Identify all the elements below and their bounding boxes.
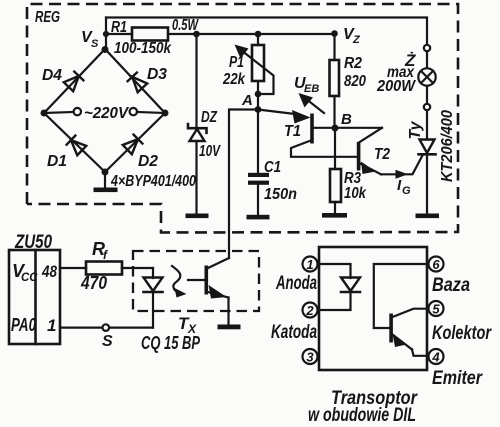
wire Rf to LED (122, 267, 153, 269)
AC terminal right (130, 108, 137, 115)
wire T1 base to B and onward (314, 127, 383, 129)
wire A left to opto collector (229, 110, 258, 259)
svg-text:CC: CC (21, 272, 38, 284)
lamp terminal top (424, 45, 430, 51)
ground C1 (247, 215, 270, 220)
svg-text:KT206/400: KT206/400 (439, 110, 456, 182)
svg-text:4×BYP401/400: 4×BYP401/400 (110, 173, 196, 190)
svg-text:R2: R2 (344, 55, 362, 72)
wire lamp to thyristor (426, 110, 428, 139)
REG dashed frame (27, 4, 458, 233)
pin 1 circle (303, 257, 318, 272)
lamp terminal bottom (424, 104, 430, 110)
svg-text:100-150k: 100-150k (114, 40, 172, 57)
lamp Z bulb (418, 68, 435, 85)
switch S terminal (103, 324, 110, 331)
DIL transistor bar (389, 314, 393, 343)
ground bridge (94, 188, 118, 193)
svg-text:ZU50: ZU50 (14, 232, 52, 253)
svg-text:22k: 22k (222, 71, 246, 88)
AC terminal left (74, 108, 81, 115)
svg-text:~220V: ~220V (84, 105, 129, 122)
wire AC left (44, 112, 74, 113)
svg-text:T2: T2 (374, 146, 390, 163)
svg-text:Baza: Baza (432, 275, 470, 296)
wire A to T1 emitter (258, 110, 299, 115)
opto transistor bar (205, 266, 209, 295)
svg-text:200W: 200W (376, 78, 416, 95)
node bridge left (41, 110, 48, 117)
T2 emitter with arrow (360, 164, 381, 175)
UEB arrow (303, 97, 324, 114)
DIL diode wiring (319, 264, 351, 278)
wire A down to C1 (257, 110, 259, 173)
DIL base wiring to pin6 (374, 264, 427, 328)
svg-text:C1: C1 (264, 159, 281, 176)
svg-text:820: 820 (344, 73, 366, 90)
svg-text:Z: Z (352, 34, 361, 46)
wire gate IG (381, 155, 423, 174)
svg-text:3: 3 (306, 350, 314, 365)
svg-text:48: 48 (41, 262, 57, 281)
wire thyristor to ground (426, 154, 428, 214)
opto collector (208, 258, 229, 268)
wire C1 to ground (257, 185, 259, 215)
svg-text:w obudowie DIL: w obudowie DIL (308, 405, 416, 426)
wire lamp top (426, 51, 428, 68)
DIL package box (319, 247, 427, 370)
pin 2 circle (303, 303, 318, 318)
node P1 branch (255, 31, 262, 38)
P1 arrowhead (235, 45, 249, 59)
P1 wiper (239, 49, 274, 95)
thyristor Ty (420, 140, 435, 154)
svg-text:EB: EB (304, 83, 319, 95)
diode D2 (122, 134, 143, 155)
zener diode DZ (188, 124, 207, 133)
svg-text:4: 4 (431, 350, 440, 365)
svg-text:5: 5 (432, 302, 440, 317)
svg-text:REG: REG (35, 9, 60, 26)
svg-text:R1: R1 (111, 19, 127, 36)
svg-text:D2: D2 (138, 153, 158, 170)
pin 4 circle (429, 349, 444, 364)
diode D1 (66, 135, 87, 156)
svg-text:G: G (402, 185, 411, 197)
node DZ branch (193, 31, 200, 38)
wire AC right (137, 112, 165, 113)
svg-text:PA0: PA0 (11, 315, 36, 335)
svg-text:1: 1 (306, 257, 313, 272)
ZU50 box (9, 250, 60, 344)
wire T1 collector to T2 base (291, 140, 357, 157)
svg-text:2: 2 (305, 303, 314, 318)
svg-text:DZ: DZ (201, 109, 218, 126)
svg-text:Kolektor: Kolektor (432, 323, 492, 344)
node wiper join (255, 91, 262, 98)
wire Vz to R2 (333, 34, 335, 61)
DIL emitter with arrow (393, 335, 413, 350)
ground Ty (416, 214, 440, 219)
svg-text:6: 6 (432, 257, 440, 272)
LED Tx (152, 268, 154, 278)
svg-text:10V: 10V (199, 143, 221, 160)
pin 5 circle (429, 301, 444, 316)
svg-text:470: 470 (80, 273, 107, 293)
transistor T1 bar (310, 114, 314, 144)
node Vs junction (103, 31, 109, 37)
wire P1 to A (257, 81, 259, 110)
svg-text:1: 1 (47, 316, 56, 335)
pin 6 circle (429, 257, 444, 272)
potentiometer P1 (252, 45, 264, 81)
T1 emitter arrow (292, 110, 311, 124)
wire Vs vertical (105, 18, 107, 51)
wire lamp bottom (426, 86, 428, 104)
ground DZ (186, 214, 209, 219)
wire B to R3 (334, 128, 336, 169)
wire S to LED cathode (109, 327, 153, 329)
node A (255, 106, 262, 113)
resistor R2 (330, 60, 340, 96)
wire R3 to ground (334, 202, 336, 214)
bridge rectifier edges (44, 49, 165, 172)
wire P1 branch (257, 34, 259, 45)
wire Vs to R1 (106, 33, 132, 35)
svg-text:150n: 150n (264, 186, 297, 203)
svg-text:D4: D4 (42, 67, 62, 84)
ground R3 (322, 213, 347, 218)
transistor T2 bar (357, 142, 361, 171)
resistor R1 (132, 28, 168, 41)
wire pin1 to S (60, 327, 103, 329)
pin 3 circle (303, 349, 318, 364)
svg-text:D3: D3 (147, 66, 167, 83)
node B (332, 125, 339, 132)
diode D4 (63, 71, 84, 92)
svg-text:S: S (102, 333, 113, 350)
wire R1 to Vz (168, 33, 335, 35)
opto emitter with arrow (208, 292, 229, 298)
capacitor C1 (248, 173, 269, 177)
DIL collector (393, 309, 428, 317)
optocoupler dashed box (133, 251, 259, 311)
svg-text:B: B (341, 111, 352, 128)
node bridge top (102, 46, 109, 53)
wire T2 collector (359, 128, 382, 143)
resistor R3 (330, 169, 341, 202)
svg-text:A: A (241, 92, 253, 109)
svg-text:Anoda: Anoda (275, 273, 317, 294)
ground opto emitter (218, 325, 241, 330)
opto base stub (188, 279, 205, 281)
svg-text:10k: 10k (344, 185, 367, 202)
resistor Rf (86, 262, 122, 275)
svg-text:S: S (91, 38, 99, 50)
wire DZ branch vertical (195, 34, 197, 128)
svg-text:Ty: Ty (407, 120, 424, 139)
svg-text:Emiter: Emiter (432, 368, 483, 389)
node bridge right (162, 110, 169, 117)
svg-text:T1: T1 (284, 123, 301, 140)
node Vz (331, 30, 338, 37)
diode D3 (127, 72, 148, 93)
wire top rail (106, 18, 427, 46)
svg-text:P1: P1 (229, 54, 244, 71)
IG current arrow (396, 170, 409, 179)
wire bridge bottom to ground (104, 172, 106, 188)
svg-text:Katoda: Katoda (271, 322, 317, 343)
wire R2 to B (333, 96, 335, 128)
svg-text:CQ 15 BP: CQ 15 BP (141, 333, 201, 353)
node bridge bottom (102, 169, 109, 176)
light arrow (172, 266, 180, 293)
svg-text:D1: D1 (47, 153, 67, 170)
wire pin48 to Rf (60, 267, 86, 269)
